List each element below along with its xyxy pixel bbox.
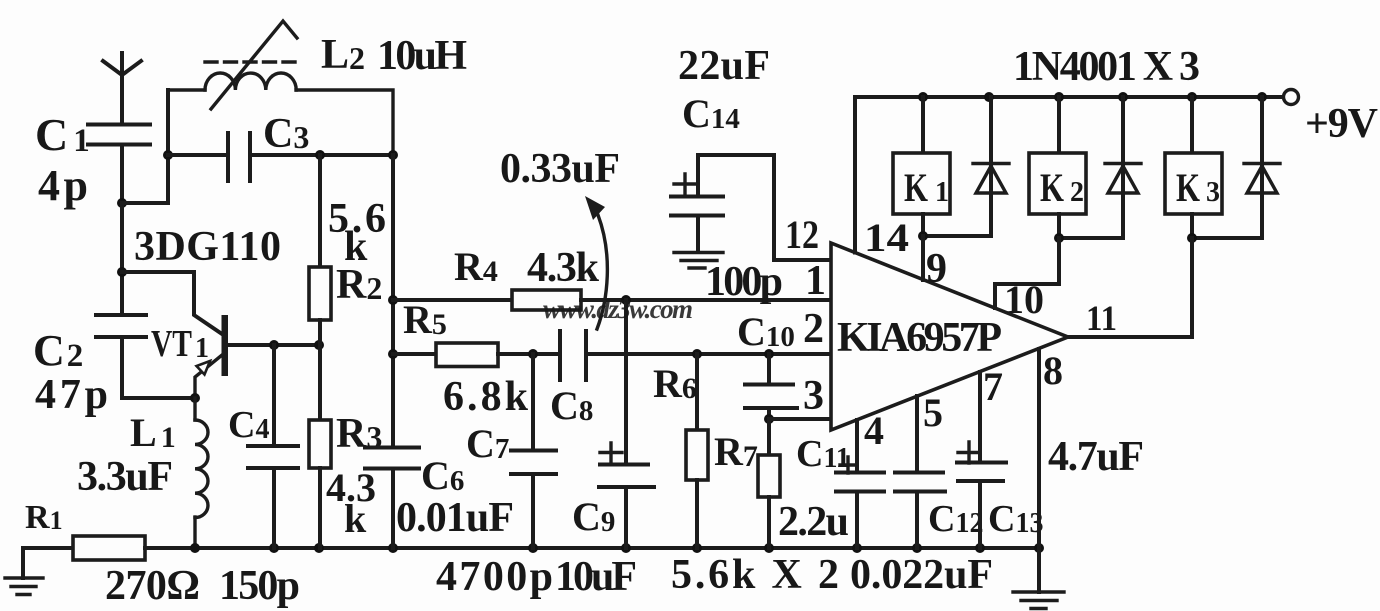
svg-text:L2: L2 xyxy=(321,32,365,78)
resistor R4 xyxy=(393,290,831,310)
resistor R1 xyxy=(23,536,145,578)
wire pin 11 xyxy=(1068,238,1192,337)
svg-text:k: k xyxy=(344,496,367,541)
op-amp U1 KIA6957P xyxy=(831,243,1068,430)
resistor R6 xyxy=(686,349,708,548)
svg-text:0.022uF: 0.022uF xyxy=(850,552,993,598)
svg-text:8: 8 xyxy=(1043,348,1063,393)
svg-text:22uF: 22uF xyxy=(678,43,770,89)
inductor L2 (variable) xyxy=(168,21,393,155)
relay K3 xyxy=(1165,97,1222,238)
wire pin 9 xyxy=(921,236,925,280)
capacitor C9 xyxy=(599,295,654,548)
svg-text:9: 9 xyxy=(926,246,947,292)
svg-text:R1: R1 xyxy=(25,499,63,536)
capacitor C6 xyxy=(365,448,419,549)
ground (C14) xyxy=(674,253,723,269)
svg-text:0.01uF: 0.01uF xyxy=(396,495,514,541)
svg-text:3.3uF: 3.3uF xyxy=(77,454,173,500)
svg-text:C3: C3 xyxy=(263,111,309,157)
resistor R2 xyxy=(309,155,331,345)
svg-text:R5: R5 xyxy=(403,297,447,342)
relay K2 xyxy=(1029,97,1086,238)
svg-text:5.6k X 2: 5.6k X 2 xyxy=(671,552,839,598)
node base-C4 xyxy=(269,340,279,350)
pin 7 / capacitor C13 xyxy=(957,372,1006,548)
wire pin 10 xyxy=(995,238,1059,308)
svg-text:4p: 4p xyxy=(38,161,88,210)
diode D1 xyxy=(923,97,1009,236)
svg-text:5: 5 xyxy=(923,390,943,435)
svg-text:C8: C8 xyxy=(550,383,593,428)
wire C1 node down to collector node xyxy=(120,203,124,315)
capacitor C4 xyxy=(248,345,298,548)
svg-text:3DG110: 3DG110 xyxy=(134,224,281,270)
capacitor C1 xyxy=(88,125,150,204)
inductor L1 xyxy=(195,398,208,548)
svg-text:+9V: +9V xyxy=(1305,101,1378,147)
wire C1 node to tank left xyxy=(122,90,168,203)
svg-text:C7: C7 xyxy=(466,421,509,466)
diode D2 xyxy=(1059,97,1141,238)
capacitor C7 xyxy=(511,349,556,548)
svg-text:KIA6957P: KIA6957P xyxy=(837,315,1002,361)
svg-text:10uH: 10uH xyxy=(377,33,467,79)
node collector branch xyxy=(117,267,127,277)
svg-text:150p: 150p xyxy=(219,563,300,609)
node emitter xyxy=(190,393,200,403)
antenna xyxy=(103,53,141,124)
svg-text:C14: C14 xyxy=(682,91,740,136)
resistor R3 xyxy=(309,345,331,548)
svg-text:47p: 47p xyxy=(35,372,108,418)
svg-text:C1: C1 xyxy=(35,109,90,160)
svg-text:C10: C10 xyxy=(737,309,795,354)
svg-text:14: 14 xyxy=(864,215,909,260)
svg-text:C13: C13 xyxy=(988,498,1043,540)
node base-R2R3 xyxy=(314,340,324,350)
svg-text:2: 2 xyxy=(803,306,824,352)
svg-text:C9: C9 xyxy=(572,494,615,539)
transistor VT1 xyxy=(195,315,319,398)
svg-text:7: 7 xyxy=(983,364,1003,409)
svg-text:4: 4 xyxy=(864,408,884,453)
svg-text:R4: R4 xyxy=(454,244,498,289)
svg-text:10uF: 10uF xyxy=(555,554,637,600)
wire +9V top rail xyxy=(855,95,1283,99)
svg-text:2.2u: 2.2u xyxy=(778,499,849,545)
svg-text:1: 1 xyxy=(805,258,826,304)
svg-text:VT1: VT1 xyxy=(151,323,209,365)
svg-text:100p: 100p xyxy=(705,259,783,305)
svg-text:www.dz3w.com: www.dz3w.com xyxy=(543,294,693,324)
svg-text:4.7uF: 4.7uF xyxy=(1048,434,1144,480)
ground (left) xyxy=(5,578,43,595)
svg-text:6.8k: 6.8k xyxy=(443,374,529,420)
svg-text:3: 3 xyxy=(803,373,824,419)
svg-text:4.3k: 4.3k xyxy=(527,245,600,291)
svg-text:4700p: 4700p xyxy=(436,554,553,600)
wire ground rail (bottom) xyxy=(145,546,1039,550)
svg-text:270Ω: 270Ω xyxy=(105,563,200,609)
svg-text:10: 10 xyxy=(1004,277,1044,322)
resistor R5 xyxy=(393,343,558,367)
node A (C1 junction) xyxy=(117,198,127,208)
capacitor C2 xyxy=(96,315,195,398)
svg-text:L1: L1 xyxy=(130,410,176,455)
svg-text:R2: R2 xyxy=(336,262,382,308)
svg-text:C12: C12 xyxy=(928,498,983,540)
wire pin 14 xyxy=(853,97,857,253)
svg-text:R6: R6 xyxy=(653,361,697,406)
terminal +9V xyxy=(1284,90,1299,105)
wire collector of VT1 xyxy=(122,272,222,334)
svg-text:R3: R3 xyxy=(336,411,382,457)
capacitor C10 xyxy=(745,349,831,424)
wire main vertical node (tank to C6) xyxy=(391,155,395,448)
capacitor C8 xyxy=(560,331,831,380)
pin 4 / capacitor C11 xyxy=(836,420,884,548)
ground (main) xyxy=(1013,592,1064,609)
junction dots on ground rail xyxy=(190,543,200,553)
svg-text:C4: C4 xyxy=(228,404,269,446)
svg-text:C2: C2 xyxy=(33,326,83,375)
svg-text:0.33uF: 0.33uF xyxy=(500,146,620,192)
svg-text:C6: C6 xyxy=(421,453,464,498)
wire pin 8 xyxy=(1037,349,1041,592)
pin 5 / capacitor C12 xyxy=(895,396,945,548)
svg-text:R7: R7 xyxy=(714,429,758,474)
svg-text:12: 12 xyxy=(785,212,819,257)
resistor R7 xyxy=(758,419,780,548)
svg-text:11: 11 xyxy=(1086,298,1117,338)
capacitor C14 xyxy=(671,155,831,260)
capacitor C3 xyxy=(163,133,398,181)
relay K1 xyxy=(893,97,950,236)
svg-text:1N4001 X 3: 1N4001 X 3 xyxy=(1013,44,1200,90)
diode D3 xyxy=(1192,97,1280,238)
svg-text:C11: C11 xyxy=(796,433,850,475)
